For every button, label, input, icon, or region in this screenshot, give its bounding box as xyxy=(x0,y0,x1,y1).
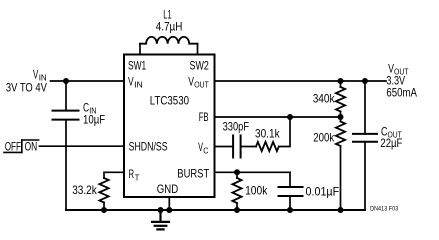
figure note DN413 F03 xyxy=(370,205,399,212)
wire 340k top lead xyxy=(340,81,342,87)
svg-text:33.2k: 33.2k xyxy=(72,183,97,197)
capacitor C 0.01uF xyxy=(279,187,303,196)
svg-text:GND: GND xyxy=(157,182,179,196)
U1 pin label SW2 xyxy=(190,59,210,73)
node 200k ground junction xyxy=(338,207,344,213)
label 340k value xyxy=(313,92,336,106)
U1 part name LTC3530 xyxy=(150,94,189,108)
U1 pin label SHDN/SS xyxy=(129,140,168,154)
U1 pin label BURST xyxy=(177,166,209,180)
wire BURST xyxy=(215,171,291,173)
svg-text:R: R xyxy=(129,167,135,181)
resistor R 100k xyxy=(232,178,241,203)
OFF-ON toggle underline xyxy=(4,151,22,153)
inductor L1 xyxy=(140,37,198,44)
label OFF xyxy=(5,140,21,154)
wire VIN input xyxy=(51,80,125,82)
svg-text:650mA: 650mA xyxy=(386,86,417,100)
wire 100k top lead xyxy=(236,172,238,178)
label 650mA xyxy=(386,86,417,100)
node 33.2k-ground junction xyxy=(101,207,107,213)
wire BURST down to 0.01uF xyxy=(289,172,291,186)
op-amp U1 IC LTC3530 body xyxy=(124,55,215,198)
svg-text:IN: IN xyxy=(134,79,143,89)
U1 pin label FB xyxy=(199,110,209,124)
svg-text:4.7µH: 4.7µH xyxy=(156,19,183,33)
svg-text:V: V xyxy=(128,75,134,89)
wire SW2 stub xyxy=(197,44,199,55)
resistor R 33.2k xyxy=(99,178,108,202)
wire 30.1k up to FB node xyxy=(279,117,290,147)
wire 330pF to 30.1k xyxy=(242,146,256,148)
ground xyxy=(152,210,169,229)
wire SW1 stub xyxy=(139,44,141,55)
label 100k value xyxy=(245,184,268,198)
label 3.3V xyxy=(386,74,405,88)
wire 200k top lead xyxy=(340,117,342,122)
wire 200k to ground rail xyxy=(340,146,342,210)
wire SHDN/SS from OFF-ON xyxy=(40,145,125,147)
svg-text:DN413 F03: DN413 F03 xyxy=(370,205,399,212)
node GND pin junction xyxy=(166,207,172,213)
svg-text:OFF: OFF xyxy=(5,140,21,154)
wire 0.01uF to ground rail xyxy=(289,197,291,211)
label CIN value 10uF xyxy=(83,113,105,127)
wire ground rail bottom xyxy=(66,209,365,211)
label VOUT output xyxy=(388,62,408,77)
svg-text:SW2: SW2 xyxy=(190,59,210,73)
svg-text:22µF: 22µF xyxy=(380,136,402,150)
svg-text:100k: 100k xyxy=(245,184,268,198)
label 0.01uF value xyxy=(306,185,340,199)
svg-text:30.1k: 30.1k xyxy=(255,127,280,141)
capacitor COUT xyxy=(353,134,377,142)
svg-text:ON: ON xyxy=(25,140,38,154)
U1 pin label GND xyxy=(157,182,179,196)
OFF-ON toggle step xyxy=(21,140,23,152)
capacitor CIN top lead wire xyxy=(65,81,67,110)
wire RT to resistor xyxy=(104,172,124,178)
U1 pin label VC xyxy=(198,140,208,156)
label 30.1k value xyxy=(255,127,280,141)
node BURST 100k junction xyxy=(234,169,240,175)
wire GND pin stub xyxy=(168,197,170,210)
wire 100k to ground rail xyxy=(236,203,238,210)
svg-text:10µF: 10µF xyxy=(83,113,105,127)
svg-text:V: V xyxy=(188,75,194,89)
svg-text:V: V xyxy=(33,68,38,82)
capacitor CIN xyxy=(53,111,79,120)
svg-text:BURST: BURST xyxy=(177,166,209,180)
wire COUT top lead xyxy=(364,81,366,134)
svg-text:OUT: OUT xyxy=(194,79,209,89)
wire VOUT rail xyxy=(215,80,387,82)
label VIN source xyxy=(33,68,47,83)
label 33.2k value xyxy=(72,183,97,197)
svg-text:LTC3530: LTC3530 xyxy=(150,94,189,108)
label COUT xyxy=(381,125,402,140)
node VIN junction xyxy=(63,78,69,84)
svg-text:SHDN/SS: SHDN/SS xyxy=(129,140,168,154)
wire FB xyxy=(215,116,341,118)
wire COUT bottom lead to rail end xyxy=(364,142,366,210)
svg-text:340k: 340k xyxy=(313,92,336,106)
node VOUT COUT junction xyxy=(362,78,368,84)
node VOUT divider junction xyxy=(338,78,344,84)
U1 pin label VOUT xyxy=(188,75,209,90)
U1 pin label RT xyxy=(129,167,140,182)
U1 pin label VIN xyxy=(128,75,143,90)
node FB divider junction xyxy=(338,114,344,120)
svg-text:200k: 200k xyxy=(313,131,335,145)
capacitor C 330pF xyxy=(233,136,241,158)
label COUT value 22uF xyxy=(380,136,402,150)
label CIN xyxy=(83,101,96,116)
label L1 value 4.7uH xyxy=(156,19,183,33)
resistor R 30.1k xyxy=(256,142,279,151)
svg-text:330pF: 330pF xyxy=(223,120,250,134)
label 330pF value xyxy=(223,120,250,134)
wire 33.2k to ground rail xyxy=(103,203,105,211)
label L1 xyxy=(163,7,171,21)
svg-text:T: T xyxy=(135,172,140,182)
node ground symbol junction xyxy=(158,207,164,213)
svg-text:FB: FB xyxy=(199,110,209,124)
capacitor CIN bottom lead wire xyxy=(65,121,67,210)
svg-text:3V TO 4V: 3V TO 4V xyxy=(6,81,47,95)
node 100k ground junction xyxy=(234,207,240,213)
U1 pin label SW1 xyxy=(128,59,146,73)
resistor R 200k xyxy=(336,122,345,146)
node FB comp junction xyxy=(287,114,293,120)
svg-text:SW1: SW1 xyxy=(128,59,146,73)
label 3V TO 4V xyxy=(6,81,47,95)
label ON xyxy=(25,140,38,154)
node 0.01uF ground junction xyxy=(287,207,293,213)
OFF-ON toggle overline xyxy=(22,139,39,141)
svg-text:0.01µF: 0.01µF xyxy=(306,185,340,199)
wire VC to 330pF xyxy=(215,146,233,148)
label 200k value xyxy=(313,131,335,145)
svg-text:C: C xyxy=(203,146,208,156)
wire 340k bottom lead xyxy=(340,112,342,118)
resistor R 340k xyxy=(336,87,345,111)
